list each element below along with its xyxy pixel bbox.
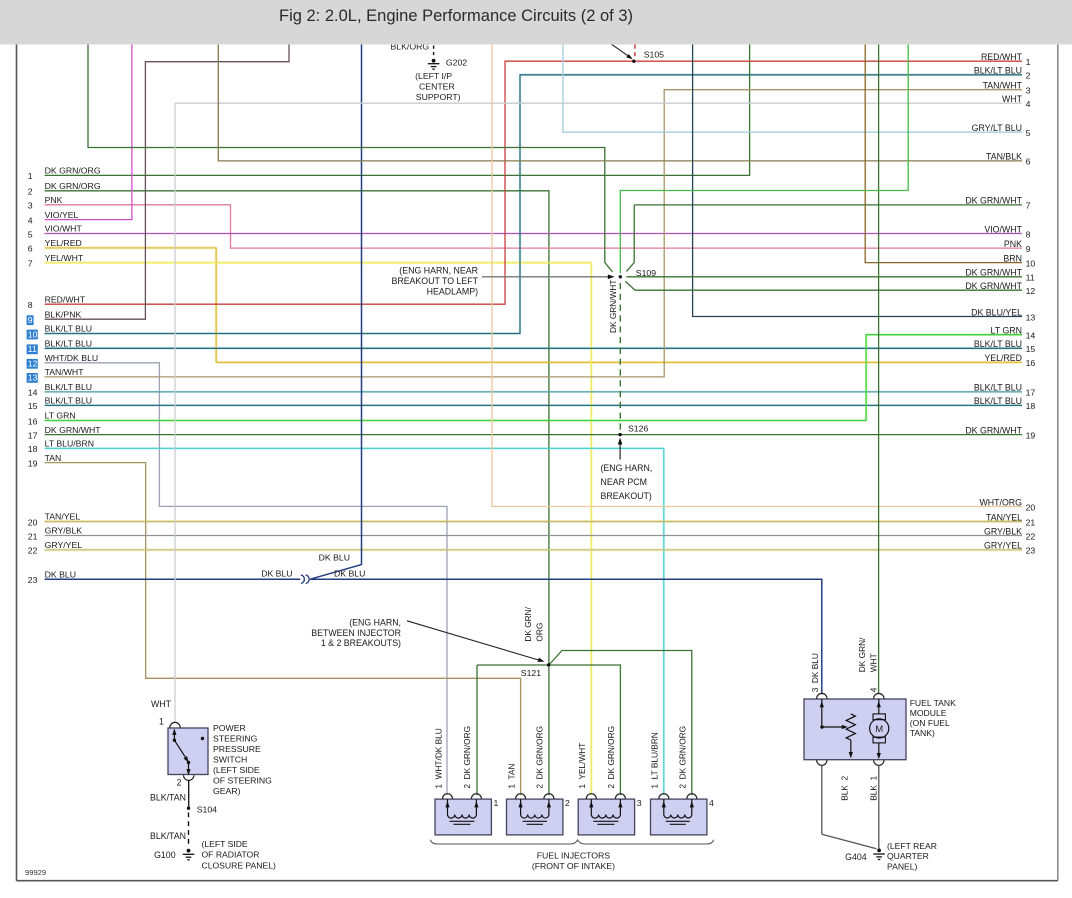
- svg-text:WHT/DK BLU: WHT/DK BLU: [45, 353, 99, 363]
- svg-text:16: 16: [1026, 358, 1036, 368]
- svg-text:PANEL): PANEL): [887, 862, 918, 872]
- svg-text:SWITCH: SWITCH: [213, 755, 247, 765]
- svg-text:ORG: ORG: [535, 623, 545, 642]
- svg-text:9: 9: [1026, 244, 1031, 254]
- svg-text:G404: G404: [845, 852, 867, 862]
- svg-text:2: 2: [28, 187, 33, 197]
- svg-text:OF RADIATOR: OF RADIATOR: [202, 850, 260, 860]
- svg-text:19: 19: [28, 458, 38, 468]
- svg-text:DK GRN/WHT: DK GRN/WHT: [965, 196, 1022, 206]
- svg-text:S109: S109: [636, 268, 656, 278]
- svg-text:DK BLU: DK BLU: [261, 569, 292, 579]
- svg-text:DK GRN/ORG: DK GRN/ORG: [45, 166, 101, 176]
- svg-text:(LEFT REAR: (LEFT REAR: [887, 841, 937, 851]
- svg-text:20: 20: [1026, 502, 1036, 512]
- svg-text:8: 8: [28, 300, 33, 310]
- svg-text:HEADLAMP): HEADLAMP): [427, 286, 478, 296]
- svg-text:S126: S126: [628, 424, 648, 434]
- svg-text:4: 4: [869, 687, 879, 692]
- svg-text:BLK/LT BLU: BLK/LT BLU: [974, 339, 1022, 349]
- svg-text:20: 20: [28, 517, 38, 527]
- svg-text:1 LT BLU/BRN: 1 LT BLU/BRN: [650, 732, 660, 788]
- svg-text:TANK): TANK): [910, 728, 935, 738]
- svg-text:2 DK GRN/ORG: 2 DK GRN/ORG: [535, 726, 545, 789]
- svg-text:BLK/TAN: BLK/TAN: [150, 831, 186, 841]
- svg-text:15: 15: [28, 401, 38, 411]
- svg-text:GRY/BLK: GRY/BLK: [45, 526, 83, 536]
- svg-text:(ENG HARN, NEAR: (ENG HARN, NEAR: [399, 266, 478, 276]
- svg-text:3: 3: [28, 201, 33, 211]
- svg-text:11: 11: [1026, 273, 1035, 283]
- svg-text:7: 7: [28, 259, 33, 269]
- svg-text:LT GRN: LT GRN: [991, 326, 1022, 336]
- svg-text:12: 12: [28, 359, 38, 369]
- svg-text:TAN/WHT: TAN/WHT: [983, 81, 1023, 91]
- svg-text:FUEL INJECTORS: FUEL INJECTORS: [537, 850, 611, 860]
- svg-text:GRY/LT BLU: GRY/LT BLU: [972, 123, 1022, 133]
- svg-text:DK BLU: DK BLU: [45, 569, 76, 579]
- svg-text:1: 1: [1026, 57, 1031, 67]
- svg-text:RED/WHT: RED/WHT: [981, 52, 1023, 62]
- svg-text:1 TAN: 1 TAN: [506, 764, 516, 789]
- svg-text:PRESSURE: PRESSURE: [213, 744, 261, 754]
- svg-text:DK BLU: DK BLU: [334, 569, 365, 579]
- svg-text:DK GRN/WHT: DK GRN/WHT: [45, 425, 102, 435]
- svg-text:6: 6: [28, 244, 33, 254]
- svg-text:21: 21: [28, 531, 38, 541]
- svg-text:SUPPORT): SUPPORT): [416, 92, 461, 102]
- svg-text:1 & 2 BREAKOUTS): 1 & 2 BREAKOUTS): [321, 638, 401, 648]
- svg-text:18: 18: [1026, 401, 1036, 411]
- svg-text:2 DK GRN/ORG: 2 DK GRN/ORG: [462, 726, 472, 789]
- svg-text:10: 10: [28, 329, 38, 339]
- svg-text:DK GRN/: DK GRN/: [523, 606, 533, 641]
- svg-text:PNK: PNK: [1004, 239, 1022, 249]
- svg-text:DK GRN/: DK GRN/: [857, 637, 867, 672]
- svg-text:5: 5: [28, 229, 33, 239]
- svg-text:CENTER: CENTER: [419, 82, 455, 92]
- svg-text:22: 22: [1026, 531, 1036, 541]
- svg-text:S104: S104: [197, 804, 217, 814]
- svg-text:18: 18: [28, 444, 38, 454]
- svg-text:BLK/LT BLU: BLK/LT BLU: [974, 396, 1022, 406]
- svg-text:13: 13: [1026, 312, 1036, 322]
- svg-text:S105: S105: [644, 50, 664, 60]
- svg-text:(LEFT SIDE: (LEFT SIDE: [202, 839, 248, 849]
- svg-text:PNK: PNK: [45, 195, 63, 205]
- svg-text:BLK/LT BLU: BLK/LT BLU: [45, 396, 92, 406]
- svg-text:12: 12: [1026, 286, 1036, 296]
- svg-text:4: 4: [28, 215, 33, 225]
- svg-text:YEL/RED: YEL/RED: [984, 353, 1022, 363]
- svg-text:G202: G202: [446, 58, 467, 68]
- svg-text:2: 2: [565, 798, 570, 808]
- svg-text:16: 16: [28, 416, 38, 426]
- svg-text:(ON FUEL: (ON FUEL: [910, 718, 950, 728]
- svg-text:CLOSURE PANEL): CLOSURE PANEL): [202, 860, 276, 870]
- svg-text:14: 14: [28, 388, 38, 398]
- svg-text:VIO/WHT: VIO/WHT: [45, 224, 83, 234]
- svg-text:YEL/WHT: YEL/WHT: [45, 253, 84, 263]
- svg-text:BLK/PNK: BLK/PNK: [45, 309, 82, 319]
- svg-text:LT GRN: LT GRN: [45, 411, 76, 421]
- svg-text:GRY/YEL: GRY/YEL: [45, 540, 83, 550]
- svg-text:DK GRN/WHT: DK GRN/WHT: [965, 268, 1022, 278]
- svg-text:19: 19: [1026, 430, 1036, 440]
- svg-text:YEL/RED: YEL/RED: [45, 238, 82, 248]
- svg-text:GEAR): GEAR): [213, 786, 241, 796]
- svg-text:MODULE: MODULE: [910, 708, 947, 718]
- svg-text:14: 14: [1026, 331, 1036, 341]
- svg-text:1: 1: [494, 798, 499, 808]
- svg-text:TAN/WHT: TAN/WHT: [45, 367, 85, 377]
- svg-text:NEAR PCM: NEAR PCM: [601, 477, 647, 487]
- svg-text:1 WHT/DK BLU: 1 WHT/DK BLU: [433, 728, 443, 788]
- svg-text:DK GRN/WHT: DK GRN/WHT: [608, 280, 618, 333]
- svg-text:13: 13: [28, 373, 38, 383]
- svg-text:RED/WHT: RED/WHT: [45, 294, 86, 304]
- svg-text:WHT: WHT: [1002, 94, 1023, 104]
- svg-text:FUEL TANK: FUEL TANK: [910, 698, 956, 708]
- svg-text:5: 5: [1026, 128, 1031, 138]
- svg-text:WHT/ORG: WHT/ORG: [979, 497, 1022, 507]
- svg-text:TAN/BLK: TAN/BLK: [986, 152, 1022, 162]
- svg-text:9: 9: [28, 315, 33, 325]
- svg-text:8: 8: [1026, 229, 1031, 239]
- svg-text:3: 3: [1026, 86, 1031, 96]
- svg-text:2: 2: [177, 777, 182, 787]
- svg-text:BLK 1: BLK 1: [869, 776, 879, 801]
- svg-text:1 YEL/WHT: 1 YEL/WHT: [577, 743, 587, 789]
- svg-text:1: 1: [28, 171, 33, 181]
- svg-text:23: 23: [28, 575, 38, 585]
- svg-text:TAN/YEL: TAN/YEL: [45, 512, 81, 522]
- svg-text:S121: S121: [521, 668, 541, 678]
- svg-text:BLK/LT BLU: BLK/LT BLU: [45, 382, 92, 392]
- svg-text:17: 17: [28, 430, 38, 440]
- svg-text:4: 4: [1026, 99, 1031, 109]
- svg-text:GRY/YEL: GRY/YEL: [984, 541, 1022, 551]
- svg-text:BLK/TAN: BLK/TAN: [150, 793, 186, 803]
- svg-text:3: 3: [637, 798, 642, 808]
- svg-text:DK BLU: DK BLU: [319, 552, 350, 562]
- svg-text:STEERING: STEERING: [213, 734, 258, 744]
- svg-text:99929: 99929: [25, 868, 46, 877]
- svg-text:21: 21: [1026, 517, 1036, 527]
- svg-text:4: 4: [709, 798, 714, 808]
- svg-text:(ENG HARN,: (ENG HARN,: [601, 463, 653, 473]
- svg-text:1: 1: [159, 716, 164, 726]
- svg-text:M: M: [875, 724, 883, 735]
- svg-text:DK BLU/YEL: DK BLU/YEL: [971, 307, 1022, 317]
- svg-text:LT BLU/BRN: LT BLU/BRN: [45, 439, 94, 449]
- svg-text:VIO/WHT: VIO/WHT: [984, 224, 1022, 234]
- svg-text:BREAKOUT): BREAKOUT): [601, 491, 652, 501]
- svg-text:17: 17: [1026, 388, 1036, 398]
- svg-text:10: 10: [1026, 258, 1036, 268]
- svg-text:11: 11: [28, 344, 37, 354]
- svg-text:TAN/YEL: TAN/YEL: [986, 512, 1022, 522]
- svg-text:3 DK BLU: 3 DK BLU: [810, 653, 820, 692]
- svg-text:23: 23: [1026, 546, 1036, 556]
- svg-text:DK GRN/WHT: DK GRN/WHT: [965, 425, 1022, 435]
- svg-text:2 DK GRN/ORG: 2 DK GRN/ORG: [678, 726, 688, 789]
- svg-text:OF STEERING: OF STEERING: [213, 776, 272, 786]
- svg-text:BRN: BRN: [1003, 253, 1022, 263]
- svg-text:GRY/BLK: GRY/BLK: [984, 526, 1022, 536]
- svg-text:2: 2: [1026, 71, 1031, 81]
- svg-text:15: 15: [1026, 344, 1036, 354]
- svg-text:WHT: WHT: [151, 699, 172, 709]
- svg-text:VIO/YEL: VIO/YEL: [45, 210, 79, 220]
- svg-text:2 DK GRN/ORG: 2 DK GRN/ORG: [606, 726, 616, 789]
- svg-text:(ENG HARN,: (ENG HARN,: [349, 617, 401, 627]
- svg-text:BLK 2: BLK 2: [840, 776, 850, 801]
- svg-text:BLK/LT BLU: BLK/LT BLU: [974, 383, 1022, 393]
- svg-text:TAN: TAN: [45, 453, 62, 463]
- svg-text:G100: G100: [154, 850, 176, 860]
- svg-text:Fig 2: 2.0L, Engine Performanc: Fig 2: 2.0L, Engine Performance Circuits…: [279, 7, 633, 25]
- svg-text:BLK/LT BLU: BLK/LT BLU: [974, 66, 1022, 76]
- svg-text:6: 6: [1026, 157, 1031, 167]
- svg-text:BETWEEN INJECTOR: BETWEEN INJECTOR: [311, 628, 401, 638]
- svg-text:(FRONT OF INTAKE): (FRONT OF INTAKE): [532, 861, 615, 871]
- svg-text:(LEFT SIDE: (LEFT SIDE: [213, 765, 260, 775]
- svg-text:BLK/LT BLU: BLK/LT BLU: [45, 324, 92, 334]
- svg-text:POWER: POWER: [213, 723, 246, 733]
- svg-text:BREAKOUT TO LEFT: BREAKOUT TO LEFT: [391, 276, 478, 286]
- svg-text:(LEFT I/P: (LEFT I/P: [415, 71, 452, 81]
- svg-text:WHT: WHT: [869, 653, 879, 672]
- svg-text:22: 22: [28, 546, 38, 556]
- svg-text:BLK/LT BLU: BLK/LT BLU: [45, 339, 92, 349]
- svg-text:DK GRN/ORG: DK GRN/ORG: [45, 181, 101, 191]
- svg-text:QUARTER: QUARTER: [887, 851, 929, 861]
- svg-text:7: 7: [1026, 201, 1031, 211]
- svg-text:DK GRN/WHT: DK GRN/WHT: [965, 281, 1022, 291]
